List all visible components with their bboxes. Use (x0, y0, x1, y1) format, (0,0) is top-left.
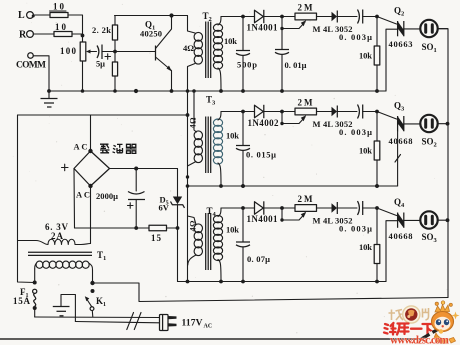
svg-text:0. 003μ: 0. 003μ (339, 127, 372, 137)
socket SO3 (420, 211, 437, 244)
wire signal line row 1 (221, 16, 255, 18)
svg-text:10: 10 (55, 22, 67, 32)
svg-text:500p: 500p (237, 60, 257, 70)
wire T4 secondary top lead (218, 208, 221, 217)
node COMM terminal (16, 53, 46, 71)
wire triac MT2 to socket row 1 (404, 28, 421, 30)
potentiometer 2M row 3 (282, 194, 317, 220)
svg-text:5μ: 5μ (96, 59, 105, 69)
wire common rail row1 (49, 90, 386, 92)
svg-text:1N4002: 1N4002 (248, 118, 280, 128)
zener D5 6V (159, 169, 185, 282)
wire (317, 207, 332, 209)
wire triac MT2 to socket row 2 (404, 123, 421, 125)
capacitor 5u coupling (96, 45, 117, 69)
svg-text:40668: 40668 (389, 231, 413, 241)
svg-text:4Ω: 4Ω (189, 220, 198, 232)
svg-text:10k: 10k (226, 131, 239, 141)
ground (mains side) (53, 295, 76, 322)
svg-text:0. 07μ: 0. 07μ (247, 254, 270, 264)
wire mains cord lower (75, 322, 159, 323)
wire (317, 16, 332, 18)
wire (33, 56, 49, 91)
socket SO1 (420, 20, 437, 54)
resistor 10k gate row 3 (359, 208, 380, 283)
capacitor 0.003u row 1 (337, 10, 377, 43)
wire rail row3 (178, 281, 387, 283)
node wiper junction row 2 (280, 110, 284, 114)
triac Q3 row 2 (389, 101, 413, 147)
svg-text:10k: 10k (359, 242, 372, 252)
svg-text:4Ω: 4Ω (189, 117, 198, 129)
svg-text:2M: 2M (298, 98, 314, 108)
wire wiper of 100 pot (86, 50, 97, 54)
fuse F1 15A (13, 281, 37, 318)
svg-text:100: 100 (60, 46, 77, 56)
svg-text:0. 003μ: 0. 003μ (339, 224, 372, 234)
wire top supply rail (115, 15, 188, 17)
watermark mascot (432, 301, 456, 344)
svg-text:6V: 6V (159, 203, 170, 213)
node filter cap junction row 2 (241, 110, 245, 114)
resistor 15 (75, 225, 178, 243)
watermark star (452, 312, 460, 320)
cord break slashes (127, 313, 141, 330)
wire triac MT1 to rail row 1 (386, 29, 398, 91)
wire bridge minus output (110, 168, 178, 170)
wire T1 primary left to fuse (34, 269, 36, 283)
diode M4L3052 trigger row 3 (313, 202, 353, 226)
transformer T1 primary winding (36, 261, 89, 268)
svg-text:AC: AC (74, 142, 88, 152)
svg-text:4Ω: 4Ω (183, 43, 194, 53)
svg-text:10k: 10k (226, 225, 239, 235)
node collector junction (169, 13, 173, 17)
wire main left vertical bus (187, 91, 189, 282)
wire T1 primary right to switch (92, 270, 94, 283)
transformer T1 secondary 6.3V 2A (18, 222, 91, 245)
node wiper junction row 1 (280, 15, 284, 19)
wire bridge bottom to T1 secondary (90, 186, 92, 244)
wire triac MT1 to rail row 2 (397, 131, 399, 186)
wire mains cord upper (35, 316, 160, 319)
svg-text:R: R (19, 30, 27, 41)
diode M4L3052 trigger row 2 (313, 106, 353, 130)
wire socket to right rail row 3 (438, 219, 448, 221)
svg-text:1N4001: 1N4001 (247, 214, 279, 224)
wire rail row2 (188, 185, 398, 187)
wire (264, 16, 295, 18)
svg-text:10: 10 (53, 2, 65, 12)
wire T2 primary bottom return (188, 64, 196, 92)
node wiper junction row 3 (280, 206, 284, 210)
wire gate lead row 3 (377, 208, 397, 216)
svg-text:117V: 117V (182, 319, 203, 329)
wire switch junction to lower-right run (93, 283, 449, 302)
svg-text:2000μ: 2000μ (96, 191, 118, 201)
wire (317, 111, 332, 113)
node mix junction (81, 34, 85, 38)
wire socket to right rail row 2 (438, 123, 448, 125)
wire (264, 111, 295, 113)
diode 1N4001 row 3 (247, 201, 279, 224)
diode M4L3052 trigger row 1 (313, 11, 353, 35)
svg-text:10k: 10k (224, 36, 237, 46)
wire T3 secondary bottom lead (218, 163, 221, 186)
resistor 10 (R channel) (54, 22, 72, 37)
triac Q2 row 1 (389, 6, 413, 50)
watermark outline char 2 (423, 308, 429, 320)
stray mark (395, 155, 401, 163)
wire (33, 33, 54, 35)
svg-text:40663: 40663 (389, 39, 413, 49)
capacitor 0.003u row 2 (337, 105, 377, 138)
wire (264, 207, 295, 209)
node filter cap junction row 1 (241, 15, 245, 19)
svg-text:0. 015μ: 0. 015μ (246, 150, 276, 160)
svg-text:L: L (18, 10, 25, 21)
svg-text:0. 01μ: 0. 01μ (285, 60, 307, 70)
node gate junction row 1 (375, 15, 379, 19)
diode 1N4001 row 1 (247, 10, 279, 33)
svg-text:40250: 40250 (140, 29, 162, 39)
diode 1N4002 row 2 (248, 105, 280, 128)
potentiometer 2M row 2 (282, 98, 317, 124)
svg-text:10k: 10k (359, 146, 372, 156)
svg-text:2. 2k: 2. 2k (92, 25, 111, 35)
node right rail junction row3 (446, 218, 450, 222)
svg-text:10k: 10k (359, 51, 372, 61)
capacitor 0.01u row 1 (275, 29, 307, 93)
node gate junction row 3 (375, 206, 379, 210)
label rectifier chinese (100, 144, 137, 153)
capacitor 0. 07μ row 3 (236, 208, 270, 283)
wire left rail (18, 115, 35, 283)
potentiometer 100 (level) (60, 36, 86, 93)
capacitor 500p row 1 (236, 17, 257, 93)
watermark telescope (421, 328, 442, 340)
wire right rail (438, 29, 448, 298)
wire T2 secondary top lead (218, 17, 221, 26)
svg-text:1N4001: 1N4001 (247, 23, 279, 33)
svg-text:40668: 40668 (389, 136, 413, 146)
wire T3 secondary top lead (218, 112, 221, 121)
wire T4 primary top feed (188, 216, 197, 225)
resistor 10k gate row 1 (359, 17, 380, 93)
transformer T3 (194, 95, 222, 174)
svg-text:AC: AC (76, 190, 90, 200)
socket SO2 (420, 115, 437, 149)
node L input terminal (18, 10, 35, 21)
potentiometer 2M row 1 (282, 3, 317, 29)
transformer T1 core (28, 250, 106, 262)
page bottom rule (0, 338, 424, 340)
watermark logo circle (403, 306, 420, 323)
wire rail1 to T3 primary feed (194, 91, 197, 132)
resistor 2.2k lower (bias) (112, 52, 117, 93)
svg-text:15: 15 (151, 233, 162, 243)
wire bridge AC top feed (18, 114, 188, 116)
watermark outline char 1 (389, 310, 404, 321)
node right rail junction row2 (446, 122, 450, 126)
wire (34, 14, 51, 16)
resistor 10 (L channel) (50, 2, 69, 18)
wire triac MT1 to rail row 3 (386, 221, 398, 282)
wire signal line row 2 (221, 111, 255, 113)
node R input terminal (19, 30, 33, 41)
plug 117V AC (160, 315, 213, 331)
wire T3 primary bottom return (188, 162, 197, 167)
capacitor 2000u filter (96, 169, 145, 229)
wire gate lead row 1 (377, 17, 397, 25)
triac Q4 row 3 (389, 197, 413, 241)
wire (72, 33, 83, 35)
svg-text:2M: 2M (298, 3, 314, 13)
wire T4 primary bottom return (188, 255, 196, 265)
node filter cap junction row 3 (241, 206, 245, 210)
transformer T4 (194, 206, 222, 270)
wire bridge plus down (73, 169, 76, 229)
transformer T2 (194, 11, 222, 78)
node gate junction row 2 (375, 110, 379, 114)
wire signal line row 3 (221, 207, 255, 209)
resistor 10k gate row 2 (359, 112, 380, 188)
svg-text:www.dzsc.com: www.dzsc.com (390, 335, 449, 345)
switch K1 (85, 281, 106, 317)
capacitor 0.003u row 3 (337, 201, 377, 234)
wire triac MT2 to socket row 3 (404, 219, 421, 221)
wire T4 secondary bottom lead (218, 260, 221, 282)
resistor 2.2k upper (bias) (92, 16, 118, 52)
node junctions on rail1 (134, 89, 138, 93)
wire socket to right rail row 1 (438, 28, 448, 30)
ground (audio common) (41, 89, 58, 107)
label + bridge output (62, 164, 69, 171)
wire bridge top lead (90, 115, 92, 151)
svg-text:2M: 2M (298, 194, 314, 204)
transistor Q1 40250 (115, 16, 173, 93)
wire T2 secondary bottom lead (218, 68, 221, 91)
wire T2 primary feed from top rail (188, 16, 196, 34)
svg-text:0. 003μ: 0. 003μ (339, 32, 372, 42)
wire gate lead row 2 (377, 112, 397, 120)
watermark red text wei-ku-yi-xia (384, 323, 433, 335)
svg-text:COMM: COMM (16, 61, 46, 71)
bridge rectifier (diamond) (74, 149, 110, 188)
capacitor 0. 015μ row 2 (236, 112, 276, 188)
svg-text:15A: 15A (13, 296, 31, 306)
wire (68, 15, 83, 36)
svg-text:AC: AC (204, 324, 213, 330)
